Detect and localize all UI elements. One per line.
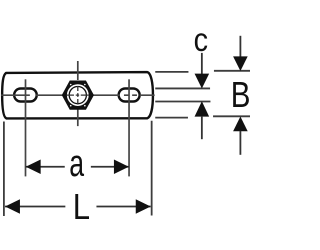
right slot <box>119 89 140 102</box>
dimension c: upper leader + down arrow <box>195 53 210 89</box>
dimension a: line <box>26 166 129 168</box>
extension line: L left <box>3 122 5 217</box>
hex nut vertical centerline <box>77 61 79 126</box>
svg-text:B: B <box>231 74 250 115</box>
hex nut <box>62 81 93 109</box>
dimension a: left arrow <box>26 160 41 174</box>
svg-text:a: a <box>69 143 84 185</box>
left slot vertical centerline <box>25 79 27 176</box>
extension line: bar bottom edge <box>155 117 188 119</box>
extension line: B bottom <box>213 115 250 117</box>
dimension c: lower leader + up arrow <box>195 101 210 139</box>
dimension B: upper leader + down arrow <box>233 36 248 71</box>
extension line: slot bottom <box>155 101 210 103</box>
left slot <box>14 89 37 102</box>
extension line: B top <box>214 70 251 72</box>
svg-text:c: c <box>194 21 208 58</box>
dimension B: lower leader + up arrow <box>233 117 248 155</box>
dimension L: line <box>5 206 151 208</box>
mounting plate body outline <box>2 72 153 118</box>
extension line: bar top edge <box>155 71 188 73</box>
svg-text:L: L <box>73 186 90 227</box>
dimension L: right arrow <box>136 199 151 213</box>
dimension L: left arrow <box>5 199 20 213</box>
dimension a: right arrow <box>114 160 129 174</box>
right slot vertical centerline <box>128 79 130 176</box>
extension line: slot top <box>155 87 210 89</box>
horizontal centerline <box>1 94 155 96</box>
extension line: L right <box>151 121 153 216</box>
